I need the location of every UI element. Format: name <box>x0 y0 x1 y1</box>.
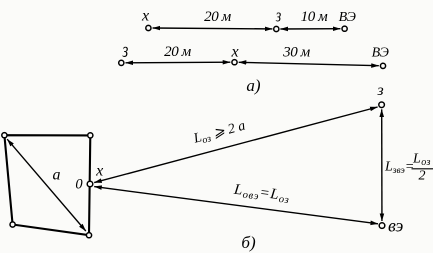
electrode з row2 (circle) <box>119 60 124 65</box>
svg-text:з: з <box>275 4 282 26</box>
wire dimension arrow з-ВЭ row1 <box>280 28 340 30</box>
svg-text:x: x <box>230 44 238 61</box>
svg-text:2: 2 <box>419 169 426 184</box>
electrode x row2 (circle) <box>232 60 237 65</box>
svg-text:б): б) <box>241 233 256 252</box>
measurement point 0 (circle) <box>87 181 93 187</box>
electrode вэ part б (circle) <box>379 223 385 229</box>
vertical dimension arrow з-вэ (L_звэ) <box>381 109 383 221</box>
corner node bottom-right (circle) <box>86 233 91 238</box>
svg-text:а): а) <box>246 76 261 95</box>
wire dimension arrow з-x row2 <box>126 61 231 64</box>
svg-text:a: a <box>53 167 61 184</box>
electrode з part б (circle) <box>379 102 385 108</box>
svg-text:x: x <box>95 162 103 179</box>
electrode x row1 (circle) <box>146 25 151 30</box>
svg-text:ВЭ: ВЭ <box>372 45 389 60</box>
svg-text:20 м: 20 м <box>164 44 192 60</box>
value label L_овэ = L_оз <box>232 182 291 207</box>
electrode ВЭ row1 (circle) <box>342 26 347 31</box>
svg-text:x: x <box>141 7 149 24</box>
diagonal dimension arrow a <box>7 139 86 231</box>
svg-text:вэ: вэ <box>388 215 403 235</box>
svg-text:0: 0 <box>75 176 83 192</box>
electrode з row1 (circle) <box>274 26 279 31</box>
svg-text:30 м: 30 м <box>282 45 311 61</box>
wire arrow 0 to з (L_оз) <box>94 107 377 183</box>
corner node top-right (circle) <box>88 133 93 138</box>
building outline (quadrilateral) <box>4 135 90 235</box>
electrode ВЭ row2 (circle) <box>380 63 385 68</box>
svg-text:20 м: 20 м <box>204 9 232 25</box>
value label L_оз >= 2a <box>191 119 247 149</box>
corner node bottom-left (circle) <box>10 222 15 227</box>
svg-text:з: з <box>376 82 383 99</box>
svg-text:з: з <box>122 38 129 63</box>
svg-text:10 м: 10 м <box>301 9 329 25</box>
value label L_звэ = L_оз/2 (fraction) <box>384 152 433 184</box>
svg-text:ВЭ: ВЭ <box>339 10 356 25</box>
wire dimension arrow x-ВЭ row2 <box>239 62 379 65</box>
wire arrow 0 to вэ (L_овэ) <box>94 187 378 224</box>
wire dimension arrow x-з row1 <box>153 27 273 30</box>
corner node top-left (circle) <box>2 133 7 138</box>
